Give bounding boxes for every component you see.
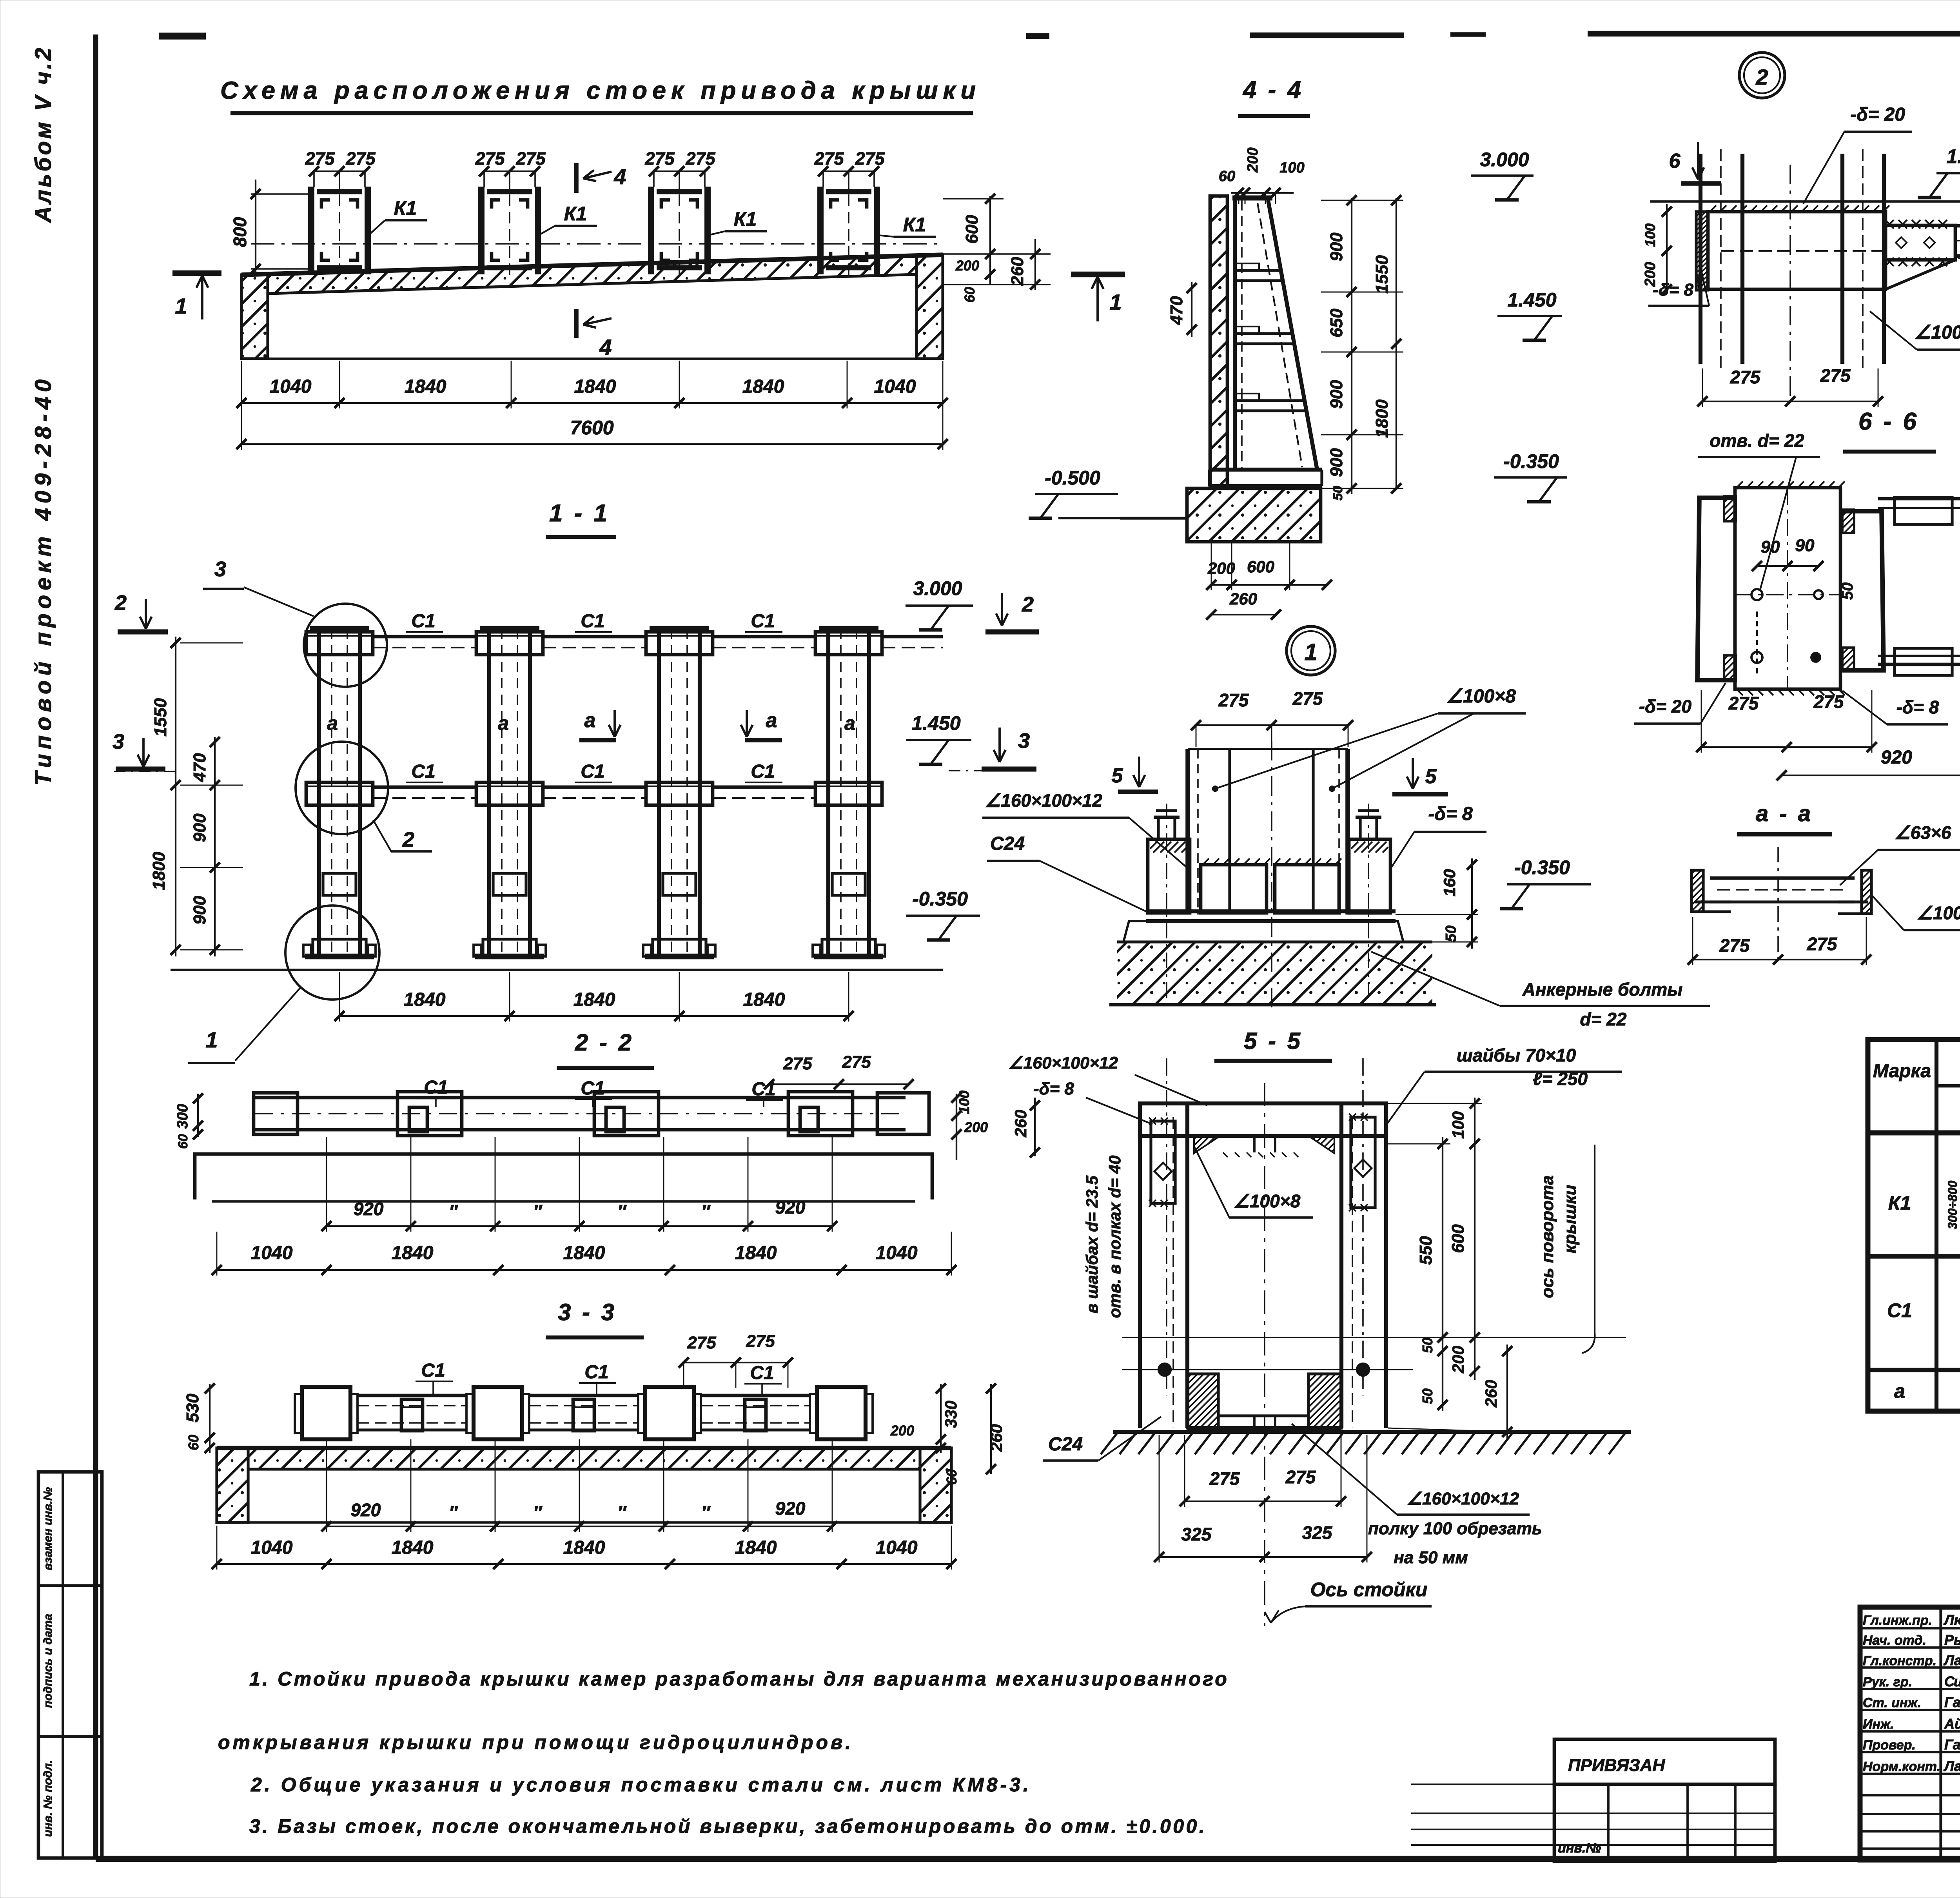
svg-text:К1: К1 bbox=[1888, 1192, 1911, 1214]
plan right-side small dims 600 200 260 60 bbox=[989, 196, 991, 285]
svg-text:на 50 мм: на 50 мм bbox=[1394, 1548, 1468, 1567]
svg-text:-0.350: -0.350 bbox=[1514, 856, 1570, 878]
table verticals bbox=[1935, 1040, 1938, 1411]
bottom-left stamp boxes bbox=[38, 1472, 102, 1858]
svg-text:С1: С1 bbox=[751, 761, 775, 782]
svg-text:″: ″ bbox=[533, 1201, 543, 1221]
node1 dim 275 275 bbox=[1196, 724, 1348, 726]
svg-text:800: 800 bbox=[230, 217, 250, 247]
svg-text:600: 600 bbox=[1448, 1224, 1468, 1253]
svg-text:инв.№: инв.№ bbox=[1558, 1841, 1601, 1856]
svg-text:Гл.констр.: Гл.констр. bbox=[1863, 1653, 1936, 1668]
svg-text:275: 275 bbox=[1285, 1467, 1316, 1487]
section mark 1 right bbox=[1071, 272, 1125, 278]
column K1 #4 strut sleeves bbox=[815, 632, 882, 655]
svg-text:3. Базы стоек, после оконча: 3. Базы стоек, после окончательной вывер… bbox=[249, 1815, 1207, 1837]
5-5 left bolt box bbox=[1151, 1121, 1175, 1203]
svg-text:1840: 1840 bbox=[735, 1243, 777, 1263]
column K1 plan section #4 bbox=[817, 187, 824, 274]
svg-text:-δ= 20: -δ= 20 bbox=[1639, 696, 1692, 717]
svg-text:Айзенштат: Айзенштат bbox=[1944, 1716, 1960, 1732]
svg-text:2: 2 bbox=[1755, 65, 1768, 89]
svg-text:1550: 1550 bbox=[1372, 255, 1392, 294]
5-5 bolts bbox=[1158, 1363, 1171, 1376]
3-3 dim row 1040/1840 bbox=[217, 1563, 951, 1565]
svg-text:крышки: крышки bbox=[1561, 1185, 1580, 1253]
svg-text:200: 200 bbox=[955, 258, 979, 274]
svg-text:″: ″ bbox=[449, 1502, 458, 1522]
svg-text:d= 22: d= 22 bbox=[1580, 1009, 1627, 1029]
svg-text:2 - 2: 2 - 2 bbox=[575, 1029, 634, 1056]
2-2 wall outline below bbox=[195, 1154, 932, 1199]
svg-text:260: 260 bbox=[1229, 590, 1257, 608]
1-1 bottom dims 1840 x3 bbox=[339, 1015, 849, 1017]
svg-text:470: 470 bbox=[1167, 296, 1186, 325]
node2 gusset plate bbox=[1708, 212, 1886, 289]
5-5 base angles bbox=[1187, 1374, 1218, 1428]
svg-text:275: 275 bbox=[1719, 935, 1750, 956]
node1 foundation hatched bbox=[1117, 942, 1432, 1005]
svg-text:275: 275 bbox=[685, 149, 715, 169]
svg-text:2: 2 bbox=[1022, 593, 1034, 616]
dimension 275+275 over K1 #3 bbox=[654, 171, 705, 172]
column K1 #4 mid bracket bbox=[832, 873, 865, 895]
svg-text:900: 900 bbox=[1327, 448, 1346, 477]
3-3 coupler blocks bbox=[302, 1387, 350, 1439]
6-6 big left channel bbox=[1697, 498, 1736, 680]
svg-text:5: 5 bbox=[1425, 765, 1437, 788]
svg-text:a: a bbox=[584, 709, 596, 732]
node1 left anchor chair bbox=[1148, 839, 1190, 913]
svg-text:-δ= 8: -δ= 8 bbox=[1033, 1079, 1074, 1098]
5-5 right column bbox=[1339, 1103, 1343, 1428]
svg-text:-0.350: -0.350 bbox=[1503, 450, 1559, 472]
3-3 interior bottom edge bbox=[248, 1521, 920, 1524]
plan bottom dimension row 1040-1840-1840-1840-1040 bbox=[241, 402, 943, 404]
column K1 #3 mid bracket bbox=[663, 873, 696, 895]
svg-text:″: ″ bbox=[701, 1201, 711, 1221]
svg-text:5: 5 bbox=[1112, 764, 1123, 787]
svg-text:275: 275 bbox=[305, 149, 335, 169]
svg-text:a: a bbox=[766, 709, 777, 732]
svg-text:60: 60 bbox=[185, 1435, 201, 1450]
title block names grid bbox=[1939, 1607, 1942, 1860]
svg-text:∠160×100×12: ∠160×100×12 bbox=[1008, 1054, 1118, 1072]
svg-text:Лапкин: Лапкин bbox=[1943, 1652, 1960, 1668]
column K1 #1 base bbox=[313, 939, 366, 956]
column K1 #3 base bbox=[653, 939, 706, 956]
svg-text:1840: 1840 bbox=[392, 1243, 434, 1263]
svg-text:260: 260 bbox=[987, 1424, 1005, 1452]
svg-text:Гл.инж.пр.: Гл.инж.пр. bbox=[1863, 1613, 1932, 1628]
ground line under 1-1 bbox=[171, 969, 943, 971]
svg-text:3.000: 3.000 bbox=[1480, 149, 1529, 171]
svg-text:6: 6 bbox=[1669, 150, 1681, 172]
sheet bottom border bbox=[96, 1856, 1960, 1862]
svg-text:3.000: 3.000 bbox=[913, 577, 962, 599]
svg-text:7600: 7600 bbox=[570, 417, 613, 439]
2-2 coupler plates with C1 sections bbox=[397, 1092, 462, 1136]
svg-text:″: ″ bbox=[617, 1201, 627, 1221]
3-3 wall left return bbox=[217, 1448, 248, 1522]
svg-text:С1: С1 bbox=[751, 611, 775, 631]
svg-text:1: 1 bbox=[1304, 639, 1317, 665]
svg-text:1: 1 bbox=[175, 294, 187, 318]
4-4 ground step line bbox=[1120, 517, 1187, 519]
svg-text:в шайбах d= 23.5: в шайбах d= 23.5 bbox=[1083, 1176, 1101, 1314]
svg-text:1. Стойки привода крышки ка: 1. Стойки привода крышки камер разработа… bbox=[249, 1668, 1229, 1690]
5-5 dims 275 325 bbox=[1185, 1501, 1341, 1502]
4-4 bottom dims 200 600 260 bbox=[1211, 584, 1327, 586]
3-3 dim row 920 bbox=[327, 1526, 832, 1527]
svg-text:″: ″ bbox=[701, 1502, 711, 1522]
svg-text:Нач. отд.: Нач. отд. bbox=[1863, 1633, 1926, 1648]
svg-text:4: 4 bbox=[613, 164, 626, 189]
svg-text:50: 50 bbox=[1443, 925, 1459, 942]
svg-text:1: 1 bbox=[1109, 290, 1122, 314]
svg-text:4: 4 bbox=[599, 335, 612, 359]
column K1 elevation #2 bbox=[487, 629, 491, 956]
svg-text:С1: С1 bbox=[421, 1360, 445, 1381]
svg-text:Анкерные болты: Анкерные болты bbox=[1522, 979, 1683, 1000]
svg-text:200: 200 bbox=[1449, 1346, 1467, 1374]
column K1 elevation #1 bbox=[317, 629, 321, 956]
svg-text:1840: 1840 bbox=[743, 989, 785, 1010]
privyazan box bbox=[1554, 1739, 1775, 1784]
svg-text:650: 650 bbox=[1327, 308, 1346, 338]
svg-text:920: 920 bbox=[354, 1199, 384, 1219]
svg-text:-0.350: -0.350 bbox=[912, 888, 968, 910]
svg-text:3 - 3: 3 - 3 bbox=[558, 1299, 617, 1325]
svg-text:Ось стойки: Ось стойки bbox=[1310, 1579, 1428, 1600]
svg-text:275: 275 bbox=[1807, 934, 1838, 954]
dimension 800 left of plan bbox=[255, 180, 256, 274]
pit interior near edge bbox=[268, 357, 916, 360]
svg-text:3: 3 bbox=[1018, 729, 1030, 753]
svg-text:100: 100 bbox=[1279, 160, 1304, 176]
svg-text:275: 275 bbox=[1218, 690, 1249, 710]
svg-text:a: a bbox=[1894, 1380, 1905, 1402]
4-4 outer dim column 1550 1800 bbox=[1396, 198, 1397, 490]
svg-text:50: 50 bbox=[1419, 1388, 1436, 1404]
svg-text:отв. в полках d= 40: отв. в полках d= 40 bbox=[1105, 1156, 1124, 1318]
svg-text:-0.500: -0.500 bbox=[1045, 467, 1100, 489]
column K1 plan section #1 bbox=[308, 187, 314, 274]
svg-text:С1: С1 bbox=[584, 1362, 608, 1383]
svg-text:a: a bbox=[498, 712, 509, 734]
svg-text:подпись и дата: подпись и дата bbox=[42, 1614, 54, 1708]
svg-text:600: 600 bbox=[1247, 557, 1274, 576]
svg-text:1550: 1550 bbox=[151, 698, 170, 737]
svg-text:∠160×100×12: ∠160×100×12 bbox=[985, 790, 1102, 811]
column K1 #2 strut sleeves bbox=[476, 632, 543, 655]
svg-text:1040: 1040 bbox=[876, 1243, 918, 1263]
svg-text:С24: С24 bbox=[990, 833, 1025, 854]
svg-text:Провер.: Провер. bbox=[1863, 1738, 1916, 1753]
node1 base plate bbox=[1146, 909, 1396, 913]
svg-text:1.450: 1.450 bbox=[1507, 289, 1556, 311]
svg-text:К1: К1 bbox=[394, 197, 417, 219]
column K1 plan section #2 bbox=[478, 187, 485, 274]
svg-text:900: 900 bbox=[1327, 232, 1346, 261]
svg-text:275: 275 bbox=[1730, 367, 1761, 387]
svg-text:К1: К1 bbox=[564, 203, 587, 225]
node2 dims 275 275 bbox=[1702, 401, 1878, 402]
svg-text:5 - 5: 5 - 5 bbox=[1244, 1028, 1303, 1054]
5-5 left column bbox=[1138, 1103, 1142, 1428]
svg-text:С1: С1 bbox=[750, 1363, 774, 1383]
svg-text:275: 275 bbox=[783, 1054, 812, 1073]
svg-text:300: 300 bbox=[174, 1104, 191, 1129]
svg-text:275: 275 bbox=[475, 149, 505, 169]
svg-text:900: 900 bbox=[190, 813, 209, 842]
svg-text:275: 275 bbox=[687, 1333, 716, 1352]
svg-text:Альбом V ч.2: Альбом V ч.2 bbox=[31, 45, 56, 223]
a-a channel section bbox=[1710, 876, 1855, 880]
svg-text:-δ= 20: -δ= 20 bbox=[1850, 104, 1905, 125]
svg-text:К1: К1 bbox=[903, 214, 926, 236]
pit wall plan - hatched band bbox=[241, 255, 943, 275]
svg-text:90: 90 bbox=[1795, 536, 1815, 555]
column K1 #2 mid bracket bbox=[493, 873, 526, 895]
svg-text:260: 260 bbox=[1008, 257, 1027, 286]
svg-text:Норм.конт.: Норм.конт. bbox=[1863, 1759, 1940, 1774]
svg-text:470: 470 bbox=[190, 753, 209, 782]
2-2 beam lines bbox=[255, 1096, 906, 1100]
svg-text:530: 530 bbox=[183, 1394, 202, 1423]
svg-text:1.450: 1.450 bbox=[911, 712, 960, 734]
svg-text:2: 2 bbox=[114, 591, 127, 615]
svg-text:1040: 1040 bbox=[874, 376, 916, 397]
svg-text:∠100×8: ∠100×8 bbox=[1917, 903, 1960, 923]
svg-text:260: 260 bbox=[1011, 1110, 1030, 1138]
svg-text:С24: С24 bbox=[1048, 1434, 1083, 1455]
privyazan grid bbox=[1554, 1784, 1775, 1861]
4-4 column rungs bbox=[1236, 269, 1281, 272]
svg-text:″: ″ bbox=[449, 1201, 458, 1221]
svg-text:1 - 1: 1 - 1 bbox=[549, 500, 610, 527]
svg-text:275: 275 bbox=[1820, 365, 1851, 386]
svg-text:Гальперина: Гальперина bbox=[1944, 1737, 1960, 1753]
svg-text:2: 2 bbox=[402, 828, 414, 851]
svg-text:Гальперина: Гальперина bbox=[1944, 1694, 1960, 1710]
column K1 #1 mid bracket bbox=[323, 873, 356, 895]
sheet top border bbox=[159, 33, 206, 39]
svg-text:″: ″ bbox=[617, 1502, 627, 1522]
node2 taper line bbox=[1886, 260, 1955, 289]
svg-text:4 - 4: 4 - 4 bbox=[1242, 76, 1303, 103]
svg-text:Схема расположения стоек приво: Схема расположения стоек привода крышки bbox=[220, 77, 981, 104]
svg-text:ПРИВЯЗАН: ПРИВЯЗАН bbox=[1568, 1756, 1665, 1775]
svg-text:-δ= 8: -δ= 8 bbox=[1896, 697, 1939, 717]
2-2 left small dims 300 60 bbox=[197, 1094, 199, 1137]
column K1 #2 base bbox=[483, 939, 536, 956]
svg-text:275: 275 bbox=[515, 149, 546, 169]
svg-text:∠63×6: ∠63×6 bbox=[1895, 822, 1951, 843]
svg-text:открывания крышки при помощ: открывания крышки при помощи гидроцилинд… bbox=[218, 1731, 853, 1753]
node2 callout circle bbox=[1739, 53, 1785, 98]
svg-text:С1: С1 bbox=[424, 1077, 448, 1098]
3-3 pit wall hatched band bbox=[217, 1446, 951, 1450]
svg-text:1840: 1840 bbox=[392, 1537, 434, 1558]
svg-text:С1: С1 bbox=[411, 611, 435, 631]
table header lines bbox=[1936, 1084, 1960, 1088]
svg-text:С1: С1 bbox=[581, 611, 604, 631]
sheet left border bbox=[93, 34, 98, 1859]
1-1 left inner dims 470 900 900 bbox=[214, 737, 216, 956]
svg-text:∠160×100×12: ∠160×100×12 bbox=[1407, 1489, 1519, 1508]
svg-text:160: 160 bbox=[1440, 869, 1459, 896]
svg-text:325: 325 bbox=[1302, 1522, 1333, 1543]
pit wall left corner return bbox=[241, 274, 268, 359]
5-5 pivot level line bbox=[1122, 1337, 1626, 1338]
svg-text:275: 275 bbox=[1728, 693, 1759, 713]
svg-text:инв. № подл.: инв. № подл. bbox=[42, 1760, 54, 1837]
strut row C1 lower bbox=[373, 786, 476, 789]
column K1 #1 strut sleeves bbox=[306, 632, 373, 655]
node2 weld bracket bbox=[1886, 225, 1955, 260]
svg-text:1800: 1800 bbox=[149, 852, 169, 890]
svg-text:920: 920 bbox=[775, 1498, 806, 1519]
svg-text:2. Общие указания и условия: 2. Общие указания и условия поставки ста… bbox=[250, 1774, 1031, 1796]
svg-text:1.450: 1.450 bbox=[1946, 145, 1960, 167]
2-2 left end plate bbox=[254, 1093, 298, 1134]
svg-text:a: a bbox=[844, 712, 855, 734]
svg-text:a - a: a - a bbox=[1756, 801, 1813, 826]
title block outer bbox=[1860, 1607, 1960, 1860]
table row lines bbox=[1868, 1254, 1960, 1259]
svg-text:100: 100 bbox=[1642, 223, 1658, 247]
column K1 elevation #4 bbox=[826, 629, 830, 956]
svg-text:90: 90 bbox=[1761, 537, 1780, 557]
dimension 275+275 over K1 #1 bbox=[314, 171, 365, 172]
svg-text:Лапкин: Лапкин bbox=[1943, 1758, 1960, 1774]
3-3 C1 mid connectors bbox=[401, 1399, 423, 1431]
svg-text:С1: С1 bbox=[581, 761, 604, 782]
svg-text:1040: 1040 bbox=[270, 376, 312, 397]
svg-text:∠100×8: ∠100×8 bbox=[1234, 1191, 1301, 1211]
svg-text:275: 275 bbox=[644, 149, 675, 169]
svg-text:200: 200 bbox=[890, 1423, 914, 1439]
svg-text:∠100×8: ∠100×8 bbox=[1914, 322, 1960, 343]
svg-text:отв. d= 22: отв. d= 22 bbox=[1710, 430, 1804, 451]
svg-text:-δ= 8: -δ= 8 bbox=[1428, 804, 1473, 824]
svg-text:1840: 1840 bbox=[574, 376, 616, 397]
6-6 tie beam bottom bbox=[1878, 655, 1960, 657]
svg-text:3: 3 bbox=[113, 730, 124, 753]
svg-text:1840: 1840 bbox=[563, 1537, 605, 1558]
svg-text:1040: 1040 bbox=[251, 1243, 293, 1263]
svg-text:275: 275 bbox=[345, 149, 376, 169]
svg-text:Любавин: Любавин bbox=[1943, 1612, 1960, 1628]
svg-text:260: 260 bbox=[1482, 1380, 1500, 1408]
strut row C1 upper bbox=[373, 635, 476, 639]
svg-text:К1: К1 bbox=[734, 208, 757, 230]
svg-text:920: 920 bbox=[351, 1500, 381, 1520]
node1 right anchor chair bbox=[1349, 839, 1390, 913]
dimension 275+275 over K1 #4 bbox=[823, 171, 874, 172]
svg-text:600: 600 bbox=[962, 215, 982, 244]
svg-text:Рыбкина: Рыбкина bbox=[1944, 1632, 1960, 1648]
svg-text:Типовой проект 409-28-40: Типовой проект 409-28-40 bbox=[31, 375, 56, 786]
svg-text:полку 100 обрезать: полку 100 обрезать bbox=[1368, 1519, 1542, 1538]
svg-text:С1: С1 bbox=[411, 761, 435, 782]
svg-text:60: 60 bbox=[962, 287, 978, 303]
section mark 1 left bbox=[172, 270, 221, 276]
svg-text:325: 325 bbox=[1181, 1524, 1212, 1544]
node2 end plate bbox=[1696, 212, 1708, 290]
3-3 wall right return bbox=[920, 1448, 951, 1522]
6-6 dims 275 275 bbox=[1701, 746, 1872, 748]
4-4 dim 470 bbox=[1191, 282, 1192, 337]
2-2 dim row 1040/1840 bbox=[217, 1269, 951, 1271]
5-5 right dims inner bbox=[1442, 1137, 1443, 1411]
svg-text:Синельникова: Синельникова bbox=[1944, 1673, 1960, 1689]
column K1 #3 strut sleeves bbox=[646, 632, 713, 655]
pit wall right corner return bbox=[916, 255, 943, 359]
1-1 left outer dims 1550 1800 bbox=[175, 637, 176, 956]
svg-text:1840: 1840 bbox=[573, 989, 615, 1010]
6-6 right C section bbox=[1842, 511, 1884, 670]
callout circle node 2 mid bbox=[296, 742, 388, 834]
5-5 column axis bbox=[1264, 1083, 1265, 1626]
6-6 gusset plate bbox=[1735, 488, 1840, 689]
5-5 ground line and hatch bbox=[1113, 1430, 1631, 1434]
plan total dimension 7600 bbox=[241, 443, 943, 445]
node2 column flanges bbox=[1699, 154, 1702, 364]
svg-text:-δ= 8: -δ= 8 bbox=[1653, 280, 1693, 299]
detail circle node 1 ref bbox=[1287, 626, 1335, 675]
node1 grout pad bbox=[1123, 921, 1403, 942]
svg-text:a: a bbox=[327, 712, 338, 734]
svg-text:300÷800: 300÷800 bbox=[1945, 1181, 1960, 1230]
5-5 top plate L160 bbox=[1140, 1103, 1386, 1136]
column K1 elevation #3 bbox=[657, 629, 661, 956]
4-4 concrete wall bbox=[1210, 196, 1227, 488]
svg-text:275: 275 bbox=[1292, 688, 1323, 709]
svg-text:275: 275 bbox=[814, 149, 844, 169]
4-4 base plate bbox=[1209, 468, 1322, 472]
svg-text:1840: 1840 bbox=[742, 376, 784, 397]
svg-text:900: 900 bbox=[190, 896, 209, 925]
svg-text:900: 900 bbox=[1327, 380, 1346, 409]
table outer frame bbox=[1868, 1040, 1960, 1411]
svg-text:275: 275 bbox=[842, 1052, 871, 1072]
3-3 right dims 330 200 260 60 bbox=[940, 1384, 942, 1453]
svg-text:200: 200 bbox=[1642, 262, 1659, 287]
column K1 #4 base bbox=[822, 939, 875, 956]
3-3 left dims 530 60 bbox=[209, 1384, 211, 1453]
svg-text:200: 200 bbox=[1245, 147, 1261, 172]
node1 traverse plates bbox=[1201, 865, 1267, 913]
svg-text:60: 60 bbox=[1219, 168, 1235, 185]
callout circle node 3 top bbox=[304, 604, 387, 687]
svg-text:275: 275 bbox=[1209, 1468, 1240, 1489]
callout circle node 1 bottom bbox=[285, 905, 379, 1000]
column K1 plan section #3 bbox=[648, 187, 654, 274]
svg-text:275: 275 bbox=[746, 1332, 775, 1351]
svg-text:275: 275 bbox=[855, 149, 885, 169]
4-4 top dims 60 200 100 bbox=[1231, 192, 1294, 194]
svg-text:1840: 1840 bbox=[405, 376, 446, 397]
2-2 dim row 920 bbox=[327, 1225, 832, 1227]
section mark 4 top bbox=[574, 163, 579, 193]
node2 tie beam bbox=[1955, 224, 1960, 228]
6-6 gusset holes bbox=[1751, 589, 1762, 600]
svg-text:3: 3 bbox=[214, 557, 226, 581]
2-2 right end plate bbox=[877, 1093, 929, 1134]
svg-text:Инж.: Инж. bbox=[1863, 1717, 1894, 1732]
